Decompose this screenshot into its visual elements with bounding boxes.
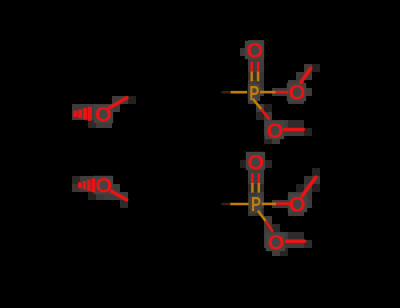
svg-text:P: P [249,83,259,105]
svg-text:P: P [251,194,261,216]
svg-text:O: O [247,150,264,174]
svg-text:O: O [96,174,113,198]
svg-text:O: O [289,81,306,105]
svg-text:O: O [268,231,285,255]
svg-text:O: O [247,39,264,63]
svg-text:O: O [289,192,306,216]
svg-text:O: O [267,119,284,143]
svg-text:O: O [95,103,112,127]
